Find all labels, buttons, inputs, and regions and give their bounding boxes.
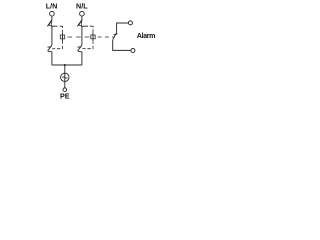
terminal alarm bottom <box>131 49 135 53</box>
wire: branch1 mid <box>51 29 53 46</box>
linkage: F2 to indicator box2 (dashed) <box>90 26 93 33</box>
wire: arrester to PE terminal <box>64 81 66 88</box>
disconnector F1 (thermal) <box>47 20 57 30</box>
wire: branch1 lower <box>51 52 53 66</box>
gas discharge tube G1 <box>61 73 69 81</box>
terminal PE <box>63 88 67 92</box>
indicator box1 <box>60 33 64 40</box>
linkage: box2 to alarm contact (dashed) <box>95 36 115 38</box>
terminal L/N <box>50 11 55 16</box>
switch contact S2 <box>78 45 82 52</box>
node: rail center junction <box>64 64 66 66</box>
terminal alarm top <box>128 21 132 25</box>
linkage: box1 to box2 (dashed) <box>65 36 91 38</box>
wire: L/N stem <box>51 16 53 20</box>
linkage: box1 to S1 (dashed) <box>52 41 62 49</box>
wire: rail to arrester <box>64 65 66 73</box>
linkage: F1 to indicator box1 (dashed) <box>60 26 63 33</box>
wire: bottom rail <box>52 64 82 66</box>
svg-text:L/N: L/N <box>46 2 58 11</box>
wire: branch2 mid <box>81 29 83 46</box>
disconnector F2 (thermal) <box>77 20 88 30</box>
svg-text:N/L: N/L <box>76 2 88 11</box>
svg-text:Alarm: Alarm <box>137 33 155 40</box>
switch contact S1 <box>48 45 52 52</box>
terminal N/L <box>80 11 85 16</box>
indicator box2 <box>91 33 95 40</box>
linkage: box2 to S2 (dashed) <box>82 41 93 49</box>
svg-text:PE: PE <box>60 92 70 101</box>
alarm contact K1 <box>113 23 131 50</box>
wire: branch2 lower <box>81 52 83 66</box>
wire: N/L stem <box>81 16 83 20</box>
